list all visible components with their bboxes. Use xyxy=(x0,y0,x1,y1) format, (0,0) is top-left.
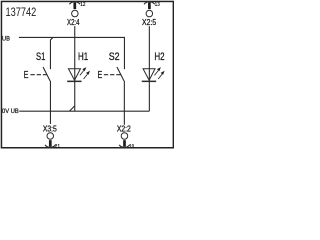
connector X2:5 plug arc xyxy=(144,2,155,5)
switch S1 blade xyxy=(43,67,50,81)
svg-text:0V UB: 0V UB xyxy=(2,108,19,115)
svg-text:X2:5: X2:5 xyxy=(142,18,157,27)
svg-text:12: 12 xyxy=(80,2,85,8)
switch S2 blade xyxy=(117,67,124,81)
LED H1 cathode bar xyxy=(67,80,81,82)
connector X2:2 plug arc xyxy=(119,145,130,148)
connector X2:5 plug pin (filled) xyxy=(148,2,151,9)
0V rail wire xyxy=(19,110,149,112)
LED H1 emission arrow 2 xyxy=(84,74,88,79)
svg-text:E: E xyxy=(24,70,29,81)
connector X3:5 plug pin (filled) xyxy=(49,140,52,147)
svg-text:S1: S1 xyxy=(36,51,45,63)
svg-text:137742: 137742 xyxy=(5,6,36,19)
wire S2 down to X2:2 xyxy=(123,81,125,125)
svg-text:X2:4: X2:4 xyxy=(67,18,80,27)
LED H2 triangle xyxy=(143,69,155,81)
connector X2:2 plug pin (filled) xyxy=(123,140,126,147)
LED H2 emission arrow 1 xyxy=(154,71,158,76)
connector X2:4 plug pin (filled) xyxy=(73,2,76,9)
connector X3:5 terminal circle xyxy=(47,133,54,140)
wire X2:4 down through H1 to 0V rail xyxy=(74,26,76,111)
svg-text:10: 10 xyxy=(129,144,134,150)
wire junction diagonal H1 to 0V rail xyxy=(69,106,74,111)
svg-text:21: 21 xyxy=(55,144,61,150)
svg-text:H2: H2 xyxy=(154,51,164,63)
svg-text:E: E xyxy=(98,70,103,81)
wire 45-deg branch from UB rail to S1 xyxy=(50,37,53,69)
connector X2:4 terminal circle xyxy=(72,10,79,17)
svg-text:H1: H1 xyxy=(78,51,88,63)
connector X2:5 terminal circle xyxy=(146,10,153,17)
actuator E dashed line S2 xyxy=(104,74,121,76)
LED H1 triangle xyxy=(68,69,80,81)
LED H2 emission arrow 2 xyxy=(158,74,162,79)
UB rail wire with corner down to S2 xyxy=(19,37,125,69)
wire X2:5 down through H2 xyxy=(148,26,150,111)
actuator E dashed line S1 xyxy=(30,74,47,76)
connector X3:5 plug arc xyxy=(45,145,56,148)
connector X2:2 terminal circle xyxy=(121,133,128,140)
svg-text:13: 13 xyxy=(155,2,160,8)
frame border xyxy=(1,1,173,147)
svg-text:UB: UB xyxy=(2,35,10,42)
svg-text:S2: S2 xyxy=(109,51,120,63)
wire S1 down to X3:5 xyxy=(49,81,51,124)
connector X2:4 plug arc xyxy=(69,2,80,5)
LED H1 emission arrow 1 xyxy=(80,71,84,76)
LED H2 cathode bar xyxy=(142,80,156,82)
